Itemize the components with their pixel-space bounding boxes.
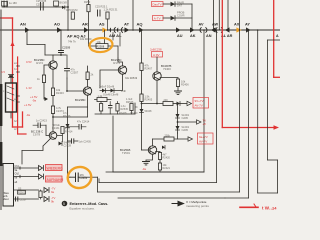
wire red trace at 273 turn right bbox=[274, 76, 280, 78]
capacitor C2423 bbox=[33, 120, 47, 128]
diode D2410 bbox=[177, 102, 181, 106]
wire from C2416 right bbox=[85, 176, 98, 178]
svg-text:R2406: R2406 bbox=[181, 83, 189, 87]
wire T4 collector down bbox=[156, 80, 158, 103]
wire horizontal R2508 line bbox=[89, 45, 119, 47]
wire pin row 2 bbox=[14, 176, 39, 178]
resistor R2503 vertical on 88 bbox=[84, 0, 91, 12]
junction dot rail 141 bbox=[141, 103, 143, 105]
svg-text:-9a: -9a bbox=[26, 113, 30, 117]
wire R2405 to y103 bbox=[141, 102, 143, 104]
wire right edge horizontal y40 bbox=[268, 39, 281, 41]
svg-text:9a: 9a bbox=[51, 190, 55, 194]
svg-text:R2403: R2403 bbox=[56, 91, 64, 95]
measurement red text -7V 9a bbox=[51, 187, 55, 195]
svg-text:C2507: C2507 bbox=[71, 71, 79, 75]
svg-text:Equalizer mod.cass.: Equalizer mod.cass. bbox=[70, 206, 95, 210]
svg-text:54048: 54048 bbox=[145, 110, 153, 113]
wire vertical 228 top bbox=[227, 0, 229, 30]
component block P2501 outline bbox=[6, 83, 17, 112]
svg-text:5: 5 bbox=[63, 202, 65, 206]
wire 204 corner left at 172 bbox=[106, 171, 204, 173]
wire emitter chain bbox=[52, 96, 54, 107]
wire down to 117 bbox=[52, 114, 54, 133]
wire vertical 141 from bus bbox=[141, 30, 143, 63]
svg-text:WIEDERG: WIEDERG bbox=[47, 166, 64, 170]
wire diode to vertical 192 bbox=[175, 3, 192, 5]
diode D2412 bbox=[176, 126, 190, 132]
svg-text:A: A bbox=[276, 34, 279, 38]
svg-text:R2508: R2508 bbox=[97, 44, 105, 48]
svg-text:AK: AK bbox=[190, 34, 196, 38]
wire output rail y103 bbox=[142, 103, 164, 105]
pin stub 1 on module block bbox=[17, 65, 20, 67]
wire T1 emitter down bbox=[52, 69, 54, 88]
capacitor C2501 top-left cluster bbox=[1, 0, 7, 7]
wire 216 corner left at 182 bbox=[99, 182, 217, 184]
wire 257 corner right at 193 bbox=[258, 192, 278, 194]
resistor R2504 vertical bbox=[100, 102, 103, 115]
label BC238C T2403 bbox=[111, 58, 122, 65]
capacitor C2414 bbox=[68, 121, 90, 130]
wire vertical 216 from bus bbox=[216, 30, 218, 183]
capacitor C2503 bbox=[36, 0, 47, 10]
wire horizontal y150 left bbox=[22, 150, 43, 152]
svg-text:measuring points: measuring points bbox=[186, 204, 209, 208]
wire vertical at 68 bbox=[67, 0, 69, 30]
wire vertical 213 top bbox=[213, 0, 215, 30]
wire AN horizontal to stage1 bbox=[27, 44, 45, 46]
capacitor cluster labels mid bbox=[126, 98, 134, 104]
svg-text:0.5V: 0.5V bbox=[26, 60, 32, 64]
svg-text:73400: 73400 bbox=[163, 67, 171, 71]
wire AN vertical down bbox=[26, 30, 28, 45]
wire cap to T6 base bbox=[46, 125, 50, 135]
crystal symbol on top of block bbox=[9, 75, 14, 78]
wire red trace corner right at 127 bbox=[13, 126, 23, 128]
svg-text:AUFNAHM: AUFNAHM bbox=[47, 178, 64, 182]
wire top-left horizontal bbox=[2, 6, 56, 8]
svg-text:R2502: R2502 bbox=[18, 192, 26, 195]
wire 45 down from AN line bbox=[44, 45, 46, 56]
diode on 141 column bbox=[135, 106, 152, 113]
resistor R2405 vertical bbox=[140, 94, 153, 102]
wire T4 emitter right bbox=[160, 78, 178, 80]
diode D2503 bbox=[171, 10, 185, 20]
measurement red text TV bbox=[203, 119, 207, 127]
wire vertical 248 from bus (AY) bbox=[248, 30, 250, 198]
resistor R2407 vertical bbox=[140, 63, 153, 71]
wire pin row 3 bbox=[14, 189, 39, 191]
component BU3/8 block bbox=[54, 1, 68, 6]
connector AQ bbox=[139, 27, 144, 32]
svg-text:9b: 9b bbox=[51, 200, 55, 204]
label BC307B T2400 bbox=[161, 64, 172, 71]
diode near T5 bbox=[162, 146, 165, 150]
resistor R2546 vertical bbox=[130, 104, 133, 115]
value box AUFNAHME red bbox=[46, 176, 64, 182]
connector chevron row 1 bbox=[39, 166, 44, 171]
label TRIGE C24 bbox=[52, 124, 60, 130]
svg-text:T2501: T2501 bbox=[122, 151, 130, 155]
value box A-TV (red) bbox=[153, 16, 164, 21]
resistor right of T6 bbox=[61, 127, 73, 134]
output arrow 2 bbox=[188, 137, 193, 141]
connector chevron row 3 bbox=[44, 188, 49, 193]
wire vertical 204 from bus bbox=[203, 30, 205, 172]
wire AL drop to R2508 rail bbox=[119, 33, 121, 47]
wire 177 column to lower rail bbox=[177, 133, 179, 139]
svg-text:9V+7V: 9V+7V bbox=[195, 99, 204, 103]
wire pin row 1 bbox=[14, 167, 39, 169]
svg-text:AS: AS bbox=[99, 22, 105, 27]
svg-text:1u 16V: 1u 16V bbox=[9, 2, 17, 5]
red annotation marks right edge bbox=[272, 206, 277, 211]
connector chevron row 4 bbox=[44, 197, 49, 202]
connector pair AV open bbox=[200, 28, 207, 33]
output arrow TV bbox=[197, 120, 202, 124]
svg-text:R250: R250 bbox=[84, 0, 91, 4]
pin tick row1 bbox=[19, 167, 21, 169]
top-left lead bbox=[4, 6, 6, 7]
diode on 67 column bbox=[66, 124, 70, 128]
transistor T2403 BC238C circle bbox=[118, 66, 126, 74]
svg-text:2xBuF D2x48: 2xBuF D2x48 bbox=[99, 86, 115, 89]
svg-text:0/172: 0/172 bbox=[36, 61, 43, 65]
svg-text:deut: deut bbox=[4, 197, 9, 201]
svg-text:DasTV: DasTV bbox=[153, 3, 162, 7]
connector board box bbox=[3, 164, 14, 207]
connector AR bbox=[84, 27, 89, 33]
resistor R2420 bbox=[158, 153, 170, 160]
wire red trace at 222 turn right with arrowhead bbox=[222, 127, 274, 129]
wire coupling line bbox=[100, 90, 123, 92]
svg-text:10k: 10k bbox=[97, 40, 102, 44]
wire T5 collector up bbox=[152, 139, 154, 146]
pin stub 2 on module block bbox=[17, 71, 20, 73]
svg-text:74h 7h: 74h 7h bbox=[68, 41, 76, 44]
svg-text:R2426: R2426 bbox=[63, 115, 71, 118]
wire 248 corner left at 198 bbox=[225, 197, 249, 199]
transistor T2405 internal bbox=[51, 133, 56, 139]
pin labels inside box bbox=[15, 165, 20, 184]
wire from Das TV to diode bbox=[163, 3, 170, 5]
resistor R2402 bbox=[37, 75, 46, 83]
svg-text:OA95: OA95 bbox=[182, 117, 189, 120]
capacitor C2505 bbox=[95, 5, 108, 17]
resistor R2410 horizontal bbox=[163, 99, 173, 106]
wire vertical 88 bus to R2508 line bbox=[88, 30, 90, 46]
transistor T2501 circle bbox=[148, 146, 156, 154]
svg-text:AW: AW bbox=[212, 23, 219, 27]
capacitor mid cluster bbox=[109, 102, 113, 115]
svg-text:AV-7V: AV-7V bbox=[195, 104, 203, 108]
wire T3 base left bbox=[100, 70, 120, 88]
connector AU bbox=[176, 27, 181, 32]
wire vertical 104 from AS bbox=[104, 30, 106, 46]
ground symbol T5 bbox=[143, 162, 150, 165]
junction dot at 68,7 bbox=[67, 6, 69, 8]
component block P2501 bottom lead bbox=[10, 112, 12, 118]
top-left component box bbox=[2, 2, 18, 7]
red annotation tick bbox=[254, 204, 256, 207]
svg-text:1n C2423: 1n C2423 bbox=[36, 120, 47, 123]
resistor R2506 horizontal bbox=[97, 95, 107, 102]
resistor R2502 vertical bbox=[66, 8, 77, 19]
wire vertical 239 from top (AX) bbox=[239, 0, 241, 192]
junction dot 157,103 bbox=[156, 103, 158, 105]
svg-text:34x R2549: 34x R2549 bbox=[125, 77, 138, 80]
wire A-9V down to T4 bbox=[156, 57, 158, 72]
wire vertical 113 bbox=[112, 116, 114, 172]
transistor T2401 BC238C circle bbox=[49, 61, 57, 69]
connector pair AM bbox=[110, 28, 116, 33]
svg-text:47n C2414: 47n C2414 bbox=[77, 121, 90, 124]
module edge left bar upper bbox=[0, 10, 2, 210]
svg-text:C2507: C2507 bbox=[20, 199, 28, 202]
wire vertical 135 bbox=[134, 103, 136, 114]
svg-text:SS: SS bbox=[18, 188, 22, 191]
svg-text:C2431: C2431 bbox=[52, 127, 60, 130]
svg-text:10k R2/00: 10k R2/00 bbox=[80, 38, 92, 41]
svg-text:AX: AX bbox=[234, 23, 240, 27]
wire 97 down bbox=[97, 177, 99, 192]
ground symbol below R2406 bbox=[175, 87, 182, 95]
svg-text:14: 14 bbox=[272, 206, 277, 211]
pin stub 3 on module block bbox=[17, 95, 20, 97]
svg-text:200: 200 bbox=[164, 99, 169, 102]
svg-text:1uh C2405: 1uh C2405 bbox=[79, 141, 92, 144]
connector left triangle at 213 bbox=[211, 27, 216, 32]
wire R2407 down bbox=[141, 71, 143, 95]
wire 99 down bbox=[98, 179, 100, 183]
resistor R2548 above T2 bbox=[86, 72, 94, 80]
svg-text:C2509: C2509 bbox=[62, 46, 71, 50]
resistor R2508 (circled) bbox=[96, 40, 108, 49]
wire T5 emitter down to ground bbox=[146, 154, 153, 161]
connector AT bbox=[125, 27, 130, 32]
connector AO bbox=[57, 27, 62, 33]
highlight ellipse around R2508 (orange marker) bbox=[89, 37, 113, 53]
svg-text:0.4h: 0.4h bbox=[121, 90, 126, 93]
value box AV-7V red two line bbox=[193, 98, 209, 109]
output arrow 1 bbox=[187, 101, 192, 105]
wire vertical 61 from bus bbox=[60, 30, 62, 55]
wire from A-TV to diode bbox=[163, 17, 170, 19]
wire to diode bbox=[173, 103, 177, 105]
wire red trace left vertical bbox=[12, 18, 14, 127]
svg-text:1.3V: 1.3V bbox=[26, 86, 32, 90]
svg-text:AO: AO bbox=[54, 22, 60, 27]
svg-text:R2420: R2420 bbox=[163, 157, 171, 160]
svg-text:200k: 200k bbox=[165, 135, 171, 138]
junction dots on bus bbox=[60, 29, 258, 31]
wire T3 emitter down bbox=[122, 74, 124, 90]
wire T1 base left bbox=[44, 65, 51, 75]
wire bottom rail y114 bbox=[95, 113, 135, 115]
svg-text:AV: AV bbox=[199, 23, 204, 27]
svg-text:BC238C: BC238C bbox=[75, 98, 86, 102]
component block P2501 top lead bbox=[10, 76, 12, 83]
wire 67 vertical mid-lower bbox=[67, 107, 69, 172]
svg-text:C2428: C2428 bbox=[64, 145, 72, 148]
svg-text:R2421: R2421 bbox=[163, 167, 171, 170]
module edge left black bar 2 bbox=[0, 142, 2, 166]
svg-text:-9a: -9a bbox=[32, 99, 36, 103]
value box Das TV (red) bbox=[152, 2, 164, 7]
transistor T2402 internal bbox=[85, 88, 91, 95]
wire diode to vertical 192 bbox=[175, 17, 192, 19]
wire to T1 collector bbox=[45, 55, 53, 61]
svg-text:13/78: 13/78 bbox=[33, 133, 40, 137]
highlight ellipse around C2416 (orange marker) bbox=[66, 165, 93, 190]
svg-text:COVR: COVR bbox=[177, 13, 185, 17]
wire vertical 219 top bbox=[218, 0, 220, 30]
diode S4048 bbox=[59, 142, 72, 148]
svg-text:9a+7V: 9a+7V bbox=[199, 135, 208, 139]
svg-text:R2428: R2428 bbox=[119, 112, 127, 115]
wire 67 to C2416 bbox=[68, 172, 71, 177]
svg-text:Ch2: Ch2 bbox=[15, 173, 20, 176]
svg-text:A-TV: A-TV bbox=[154, 17, 161, 21]
coupling pair D2548 bbox=[99, 86, 115, 93]
capacitor C2507 bbox=[65, 55, 79, 78]
wire T2 base left bbox=[67, 78, 85, 91]
svg-text:AN: AN bbox=[206, 34, 212, 38]
wire T6 right to components bbox=[57, 134, 63, 142]
svg-text:Ch1: Ch1 bbox=[15, 165, 20, 168]
circled reference number 5 bbox=[62, 201, 68, 207]
svg-text:AR: AR bbox=[82, 22, 88, 27]
value box lower red two line bbox=[198, 133, 214, 144]
capacitor C2416 (circled component) bbox=[70, 173, 88, 182]
wire diode column vertical bbox=[177, 104, 179, 134]
resistor R2502b small bbox=[18, 188, 26, 195]
hatch marks inside module block bbox=[7, 86, 14, 101]
wire lower out y139 bbox=[153, 138, 189, 140]
svg-text:1.2k: 1.2k bbox=[98, 95, 103, 98]
resistor R2406 vertical bbox=[176, 79, 189, 87]
wire R2506 leads bbox=[95, 99, 112, 101]
wire horizontal y55 bbox=[53, 54, 66, 56]
resistor R2421 bbox=[158, 163, 170, 170]
wire T5 right to resistor chain bbox=[156, 152, 161, 153]
measurement red text -7V 9b bbox=[51, 196, 55, 204]
resistor vertical between rows bbox=[39, 190, 42, 199]
red annotation underline bottom bbox=[240, 206, 258, 208]
wire red trace at 222 vertical bbox=[221, 0, 223, 128]
label BC238C T2401 bbox=[34, 58, 45, 65]
connector AS (orange highlighted triangle) bbox=[102, 27, 107, 32]
wire T2 emitter down bbox=[87, 95, 89, 117]
diode D2502 bbox=[171, 0, 184, 7]
wire red trace left horizontal entry bbox=[0, 17, 13, 19]
resistor R2403 bbox=[51, 88, 64, 96]
coupling pair C2548 bbox=[103, 89, 119, 97]
svg-text:C2503: C2503 bbox=[36, 4, 44, 7]
wire to TV arrow bbox=[178, 121, 197, 123]
svg-text:AT: AT bbox=[124, 22, 130, 27]
diode D2411 bbox=[176, 114, 190, 120]
wire T6 emitter diagonal bbox=[43, 139, 51, 151]
svg-text:+8: +8 bbox=[203, 122, 207, 126]
transistor T2400 internal bbox=[155, 73, 161, 80]
wire AM drop bbox=[112, 33, 114, 41]
wire 141 base column bbox=[141, 104, 143, 151]
connector chevron row 2 bbox=[39, 174, 44, 179]
wire red trace second vertical 17.5 bbox=[17, 57, 19, 134]
diode arrow at emitter junction bbox=[45, 97, 49, 101]
capacitor C2405 bbox=[68, 139, 92, 144]
junction dot 61,55 bbox=[60, 54, 62, 56]
wire 267 corner right at 160 bbox=[268, 159, 278, 161]
pin tick row2 bbox=[19, 175, 21, 177]
wire base resistor down bbox=[43, 83, 45, 100]
svg-text:AN: AN bbox=[20, 22, 26, 27]
wire vertical 22 down to connector box bbox=[21, 151, 23, 165]
wire 239 corner left at 192 bbox=[98, 191, 240, 193]
wire vertical at 192 bbox=[191, 4, 193, 30]
wire red trace up at 22.5 bbox=[22, 112, 24, 127]
wire R chain verticals bbox=[159, 160, 161, 173]
connector AK bbox=[190, 27, 195, 32]
connector pair AL bbox=[117, 28, 123, 33]
connector left triangle at 227 bbox=[225, 27, 230, 32]
svg-text:2xBC238: 2xBC238 bbox=[150, 48, 162, 52]
transistor T2401 internal bbox=[51, 62, 57, 69]
wire vertical 267 down bbox=[267, 40, 269, 160]
svg-text:4.5: 4.5 bbox=[1, 70, 5, 74]
svg-text:AQ: AQ bbox=[137, 22, 143, 27]
label R2426 bbox=[63, 112, 71, 118]
wire emitter bottom horizontal bbox=[53, 116, 88, 118]
wire vertical at 133 bbox=[132, 0, 134, 30]
board label Steuerb bbox=[4, 191, 10, 201]
feedback loop rectangle bottom side bbox=[113, 171, 204, 173]
module edge left black bar 1 bbox=[0, 84, 2, 126]
wire red trace at 273 vertical bbox=[273, 0, 275, 77]
wire T2 collector up bbox=[87, 66, 89, 87]
transistor T2501 internal bbox=[150, 147, 156, 154]
transistor T2400 BC307B circle bbox=[153, 72, 161, 80]
resistor R2531 vertical bbox=[104, 8, 119, 31]
transistor T2405 circle bbox=[49, 132, 57, 140]
connector AY bbox=[246, 27, 251, 32]
wire T5 base left bbox=[142, 149, 150, 151]
value box A-9V red bbox=[152, 52, 163, 58]
capacitor C2507b bbox=[16, 197, 28, 202]
wire pin row 4 bbox=[14, 198, 39, 200]
svg-text:+1.5V: +1.5V bbox=[24, 103, 32, 107]
wire red trace second corner right at 134 bbox=[18, 133, 26, 135]
wire bottom routing y198 bbox=[118, 197, 225, 199]
transistor T2403 internal bbox=[120, 67, 126, 74]
wire vertical at 88 bbox=[88, 0, 90, 30]
svg-text:-9a: -9a bbox=[142, 167, 146, 171]
capacitor C2509 symbol bbox=[59, 51, 64, 53]
wire vertical 277 bbox=[277, 160, 279, 193]
connector AN bbox=[25, 27, 30, 33]
svg-text:AY: AY bbox=[245, 23, 250, 27]
svg-text:R2414: R2414 bbox=[65, 131, 73, 134]
svg-text:BU3/8: BU3/8 bbox=[60, 1, 68, 5]
wire main horizontal bus bbox=[0, 29, 280, 31]
svg-text:A:9V: A:9V bbox=[153, 53, 160, 57]
value box WIEDERG red bbox=[46, 165, 64, 171]
label BC251B T2501 bbox=[120, 148, 131, 155]
svg-text:1.2k R25.31: 1.2k R25.31 bbox=[104, 8, 119, 12]
wire 56 to 68 bbox=[56, 6, 68, 8]
